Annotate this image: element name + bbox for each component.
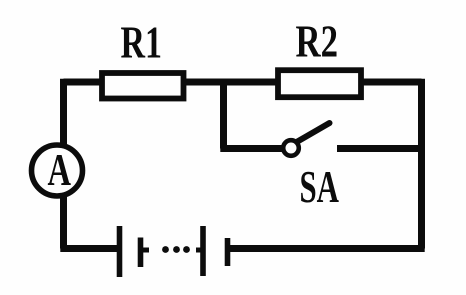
battery ellipsis dots (omitted cells) bbox=[162, 246, 190, 253]
switch SA: hinge circle bbox=[283, 140, 299, 156]
wire right vertical bbox=[418, 79, 425, 249]
wire branch vertical from R1-R2 node bbox=[220, 82, 227, 149]
battery cell 1 short plate (-) bbox=[141, 238, 150, 268]
resistor R2 bbox=[278, 70, 361, 97]
battery cell 2 long plate (+) bbox=[196, 226, 203, 276]
ammeter letter A bbox=[48, 144, 72, 195]
svg-text:A: A bbox=[48, 144, 72, 195]
switch SA: lever arm (open) bbox=[298, 123, 330, 142]
wire branch horizontal to switch bbox=[220, 145, 282, 152]
resistor R1 bbox=[102, 73, 184, 99]
wire bottom right segment (battery to right corner) bbox=[228, 245, 425, 252]
label SA bbox=[300, 161, 340, 212]
svg-text:R2: R2 bbox=[296, 16, 339, 67]
battery cell 1 long plate (+) bbox=[117, 226, 123, 277]
wire left vertical (top corner to ammeter to bottom corner) bbox=[60, 79, 67, 249]
label R2 bbox=[296, 16, 339, 67]
wire switch to right rail bbox=[337, 145, 422, 152]
wire bottom left segment (to battery) bbox=[60, 245, 117, 252]
battery cell 2 short plate (-) bbox=[225, 238, 231, 266]
label R1 bbox=[121, 17, 163, 68]
svg-text:R1: R1 bbox=[121, 17, 163, 68]
ammeter A (circle) bbox=[32, 145, 83, 196]
svg-text:SA: SA bbox=[300, 161, 340, 212]
wire top rail bbox=[64, 79, 422, 86]
